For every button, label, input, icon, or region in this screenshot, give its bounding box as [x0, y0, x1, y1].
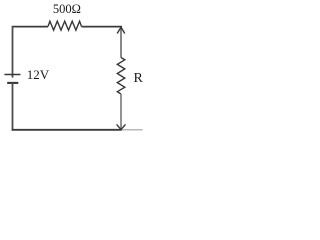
wire right branch upper with arrowhead up [117, 27, 125, 57]
wire bottom rail [12, 129, 122, 131]
svg-text:R: R [134, 71, 144, 86]
battery V1 negative plate [7, 82, 18, 84]
svg-text:12V: 12V [27, 67, 50, 82]
svg-text:500Ω: 500Ω [53, 2, 81, 16]
wire left rail lower [12, 83, 14, 131]
wire bottom rail faint extension [122, 129, 143, 131]
wire right branch lower with arrowhead down [117, 94, 126, 130]
wire left rail upper [12, 26, 14, 78]
wire top rail [13, 26, 123, 28]
resistor R vertical zigzag [117, 58, 125, 95]
resistor R1 500ohm zigzag [48, 21, 82, 30]
battery V1 positive plate [4, 74, 20, 76]
